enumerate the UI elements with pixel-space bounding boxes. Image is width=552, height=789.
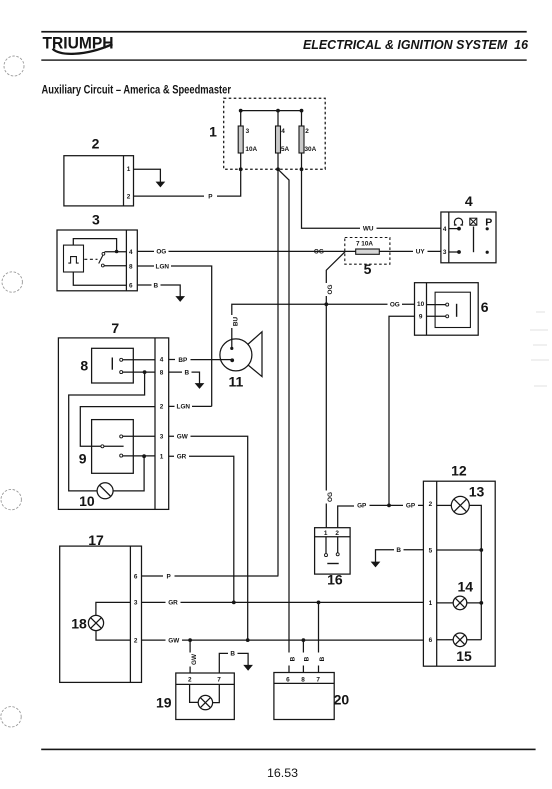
binder hole 4 [1,707,21,727]
wire GW line to 12:6 [142,639,424,641]
svg-text:P: P [208,193,213,200]
svg-text:BP: BP [178,357,188,364]
svg-text:5: 5 [364,261,372,277]
component 6 box [415,283,479,336]
wire switch common to terminal 4 [105,251,126,253]
wire F2 diagonal branch [278,169,289,672]
wire B from 3:6 [137,285,180,297]
component 20 box [274,673,334,720]
relay unit box inside 3 [64,245,84,272]
fuse F1 wire [240,111,242,170]
component 6 terminal strip [426,283,428,336]
wire P from 2:2 to fuse F1 [134,169,241,196]
component 3 box [57,230,137,291]
junction GW x 19:2 drop [188,638,192,642]
component 17 terminal strip [129,546,131,682]
svg-text:5A: 5A [281,146,290,153]
svg-text:7 10A: 7 10A [356,241,373,248]
svg-text:2: 2 [429,501,433,508]
horn 11 body [220,339,252,371]
wire 8b to terminal 8 [123,371,155,373]
svg-text:17: 17 [88,532,104,548]
svg-text:GR: GR [177,454,187,461]
wire 19:2 internal to lamp [190,684,199,702]
component 16 box [315,528,351,574]
svg-text:8: 8 [80,357,88,373]
switch box inside 6 [435,292,470,327]
svg-text:8: 8 [301,677,305,684]
component 19 box [176,673,235,720]
lamp 10 [97,483,113,499]
binder hole 1 [4,56,24,76]
svg-text:6: 6 [134,574,138,581]
wire lamp 10 to terminal 1 line [113,456,144,491]
component 12 terminal strip [436,481,438,666]
wire GW from 7:3 down [169,436,248,640]
contact dot 3a [457,250,461,254]
component 4 terminal strip [448,212,450,263]
svg-text:P: P [485,217,492,229]
svg-text:8: 8 [129,263,133,270]
horn terminal top [230,347,233,350]
svg-text:OG: OG [390,302,400,309]
contact 16b [336,553,339,556]
wire OG from 3:4 to fuse 5 [137,250,344,252]
svg-text:3: 3 [443,249,447,256]
fuse F2 body [276,126,281,153]
lamp 18 [88,615,103,630]
wire 8a to terminal 4 [123,359,155,361]
svg-text:14: 14 [458,579,474,595]
fuse box 1 dashed outline [224,98,326,169]
svg-text:16: 16 [327,572,343,588]
svg-text:B: B [319,656,326,661]
contact 6:10 [446,303,449,306]
junction GR x 20:7 drop [317,601,321,605]
lamp 14 [453,596,467,610]
svg-text:13: 13 [469,483,485,499]
svg-text:B: B [184,369,189,376]
junction bus-F3 [300,109,304,113]
component 2 box [64,156,134,206]
binder hole 3 [1,489,21,509]
svg-text:B: B [396,547,401,554]
svg-text:3: 3 [246,128,250,135]
wire horn feed to 6:10 [232,304,415,348]
svg-text:6: 6 [429,637,433,644]
fuse F2 wire [277,111,279,170]
wire F3 to WU [302,169,441,228]
svg-text:3: 3 [92,212,100,228]
wire 16:1 internal [325,537,327,554]
contact dot 4a [457,227,461,231]
wire through fuse 5 to UY [345,250,441,252]
ground (component 3) [176,297,184,302]
svg-text:10: 10 [417,301,425,308]
wire terminal 2 to switch 9 common [80,407,155,447]
svg-text:2: 2 [127,194,131,201]
junction GW x 7:3 drop [246,638,250,642]
wire B from 19:7 to ground [219,653,248,673]
switch bar in 16 [327,563,338,565]
contact dot 3b [486,251,489,254]
svg-text:B: B [289,656,296,661]
wire lamp 13 to internal bus [469,505,481,639]
horn 11 trumpet [236,332,262,377]
svg-text:GW: GW [191,653,198,665]
switch 9 common contact [101,445,104,448]
svg-text:OG: OG [156,249,166,256]
contact dot 4b [486,227,489,230]
footer rule [41,749,535,751]
component 7 terminal strip [154,338,156,510]
svg-text:12: 12 [451,463,467,479]
junction bus-F1 [239,109,243,113]
svg-text:B: B [153,282,158,289]
horn terminal left [230,358,234,362]
junction on 8b wire [143,370,147,374]
wire GW drop to 19:2 [189,640,191,673]
switch 9 box [92,420,134,474]
wire 6:10 internal [427,304,446,306]
switch bar in 6 [456,304,458,317]
svg-text:B: B [304,656,311,661]
pulse symbol [68,257,78,264]
svg-text:6: 6 [286,677,290,684]
svg-text:1: 1 [324,530,328,537]
wire BP from 7:4 to horn [169,359,233,361]
junction GW x 20:8 drop [302,638,306,642]
junction GR x 7:1 drop [232,601,236,605]
component 20 strip line [274,682,334,684]
wire 9b to terminal 1 [123,455,155,457]
wire GW to 20:8 drop [302,640,304,672]
svg-text:9: 9 [419,313,423,320]
svg-text:6: 6 [481,299,489,315]
contact 9a [120,435,123,438]
svg-text:16.53: 16.53 [267,766,298,780]
svg-text:15: 15 [456,648,472,664]
svg-text:1: 1 [429,600,433,607]
svg-text:11: 11 [228,373,243,389]
wire 12:2 to lamp 13 [437,504,452,506]
svg-text:2: 2 [92,136,100,152]
wire 4:4 internal [449,228,458,230]
svg-text:OG: OG [327,285,334,295]
wire stub to horn left terminal [220,359,233,361]
switch contact a [102,252,105,255]
lamp icon in 4 [470,218,477,225]
svg-text:4: 4 [465,193,473,209]
Triumph logo [43,35,114,54]
wire 17:3 to lamp 18 [96,602,130,615]
svg-text:LGN: LGN [156,263,170,270]
svg-text:3: 3 [134,600,138,607]
svg-text:10: 10 [79,493,95,509]
wire lamp 18 to 17:2 [96,631,130,640]
component 12 box [423,481,495,666]
junction F2 bottom [276,167,280,171]
fuse F3 body [299,126,304,153]
svg-text:UY: UY [416,249,426,256]
svg-text:10A: 10A [245,146,257,153]
wire GP from 16:2 to 12:2 [338,505,424,527]
svg-text:GW: GW [177,434,189,441]
wire 8b junction to lamp 10 [69,372,145,491]
lamp 10 slash [99,485,110,496]
svg-text:1: 1 [209,124,217,140]
contact 6:9 [446,315,449,318]
binder hole 2 [2,272,22,292]
junction F3 bottom [300,167,304,171]
horn icon in 4 [454,218,463,225]
wire GR to 20:7 drop [318,602,320,672]
svg-text:2: 2 [305,128,309,135]
ground (component 7) [196,384,204,389]
svg-text:1: 1 [127,166,131,173]
component 4 box [441,212,496,263]
ground (near 12) [372,562,380,567]
wire OG diagonal branch [326,252,345,305]
svg-text:4: 4 [160,357,164,364]
wire 16:2 internal [337,537,339,553]
svg-text:9: 9 [79,450,87,466]
wire 12:6 internal [437,639,482,641]
wire F2 down to P corner [277,169,279,576]
wire LGN from 3:8 [137,266,211,406]
switch lever in 3 [99,252,105,264]
contact 8a [120,358,123,361]
wire lamp to 19:7 [213,684,220,702]
svg-text:8: 8 [160,369,164,376]
junction on terminal 1 line [142,454,146,458]
svg-text:5: 5 [429,547,433,554]
svg-text:LGN: LGN [177,404,191,411]
svg-text:GP: GP [406,503,416,510]
svg-text:2: 2 [134,637,138,644]
svg-text:Auxiliary Circuit – America &: Auxiliary Circuit – America & Speedmaste… [42,82,232,96]
svg-text:4: 4 [281,128,285,135]
wire 6:9 to GP junction [389,316,415,505]
svg-text:2: 2 [335,530,339,537]
svg-text:7: 7 [111,320,119,336]
svg-text:18: 18 [71,615,87,631]
svg-text:4: 4 [129,249,133,256]
svg-text:WU: WU [363,226,374,233]
fuse bus wire [241,110,302,112]
svg-text:20: 20 [334,691,350,707]
svg-text:B: B [230,651,235,658]
component 2 terminal strip [123,156,125,206]
svg-text:7: 7 [217,677,221,684]
switch 9 lever [104,445,124,447]
lamp 13 [451,496,469,514]
lamp 15 [453,633,467,647]
wire B from 12:5 to ground [376,550,424,562]
svg-text:19: 19 [156,695,172,711]
svg-text:OG: OG [314,249,324,256]
svg-text:2: 2 [188,677,192,684]
junction internal bus at 1 [479,601,483,605]
fuse 5 dashed outline [345,238,390,265]
bleed-through marks right margin [530,312,549,386]
svg-text:GW: GW [168,637,180,644]
svg-text:4: 4 [443,226,447,233]
svg-text:ELECTRICAL & IGNITION SYSTEM: ELECTRICAL & IGNITION SYSTEM 16 [303,38,529,52]
svg-text:30A: 30A [305,146,317,153]
wire 2:1 to ground [134,169,161,182]
fuse 5 body [356,249,380,254]
ground (near 19) [244,665,252,670]
component 19 strip line [176,683,235,685]
svg-text:P: P [166,573,171,580]
wire stub to horn top terminal [231,339,233,349]
wire 12:5 internal [437,549,482,551]
svg-text:OG: OG [327,492,334,502]
component 3 terminal strip [125,230,127,291]
svg-text:1: 1 [160,454,164,461]
svg-text:7: 7 [316,677,320,684]
wire relay bottom to terminal 6 [73,272,126,285]
contact 16a [325,554,328,557]
junction internal bus at 5 [479,548,483,552]
wire GR from 7:1 down [169,456,234,602]
svg-text:2: 2 [160,404,164,411]
junction OG-horn wire [324,302,328,306]
switch 8 bar [111,358,113,370]
wire LGN from 7:2 [169,405,212,407]
contact 8b [120,371,123,374]
wire 9a to terminal 3 [123,435,155,437]
svg-text:6: 6 [129,282,133,289]
wire relay top to switch [73,239,116,252]
junction in 3 [115,250,119,254]
wire 6:9 internal [427,315,446,317]
wire B from 7:8 to ground [169,372,200,383]
svg-text:BU: BU [232,317,239,327]
wire P from 17:6 [142,575,278,577]
svg-text:GR: GR [168,600,178,607]
wire 4:3 internal [449,251,458,253]
switch 8 box [92,348,134,383]
junction GP wire [387,504,391,508]
wire OG vertical to 16:1 [325,304,327,527]
component 16 strip line [315,536,351,538]
lamp in 19 [198,695,212,709]
header bottom rule [41,59,526,60]
junction bus-F2 [276,109,280,113]
wire contact b to terminal 8 [104,265,126,267]
contact 9b [120,454,123,457]
ground (component 2) [156,182,164,187]
component 7 box [58,338,168,510]
header top rule [41,31,526,33]
switch contact b [101,264,104,267]
svg-text:3: 3 [160,434,164,441]
switch lever in 4 [473,227,475,253]
wire 12:1 internal [437,602,482,604]
junction F1 bottom [239,167,243,171]
component 17 box [60,546,142,682]
svg-text:GP: GP [357,503,367,510]
fuse F1 body [238,126,243,153]
fuse F3 wire [301,111,303,170]
dashed actuator link [84,258,97,260]
wire GR line to 12:1 [142,601,424,603]
